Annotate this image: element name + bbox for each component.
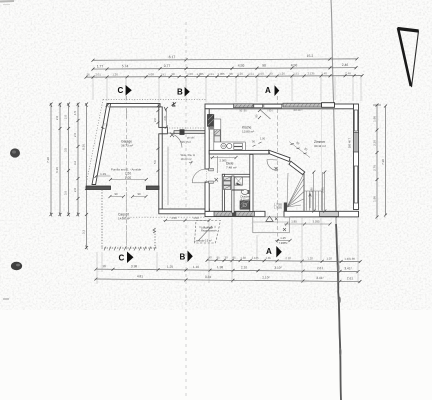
svg-text:1.55: 1.55 xyxy=(265,256,271,260)
extension lines from plan to bottom dims xyxy=(97,215,385,284)
svg-text:1.26: 1.26 xyxy=(237,72,243,76)
svg-text:15.2: 15.2 xyxy=(307,54,314,58)
svg-text:3.5: 3.5 xyxy=(64,148,68,153)
svg-text:1.00: 1.00 xyxy=(125,176,131,180)
marker A top xyxy=(265,85,279,96)
corner fold triangle top-right xyxy=(398,28,419,87)
svg-text:1.51: 1.51 xyxy=(293,71,299,75)
svg-text:90 l 90: 90 l 90 xyxy=(239,110,247,113)
bath mid partition xyxy=(232,189,244,191)
svg-text:7.30: 7.30 xyxy=(381,159,385,165)
svg-text:3.035: 3.035 xyxy=(313,220,320,224)
door frame blocks xyxy=(209,168,214,171)
house top wall xyxy=(205,104,354,109)
row1 ticks xyxy=(91,57,358,61)
garage right wall lower xyxy=(159,134,162,209)
door threshold dotted xyxy=(206,169,208,183)
chimney pier dark xyxy=(208,115,214,127)
section line B-B xyxy=(185,22,187,396)
svg-text:4.50: 4.50 xyxy=(291,63,298,67)
svg-text:2.0: 2.0 xyxy=(153,118,157,122)
tick cluster near walkway top xyxy=(172,102,177,107)
bottom wall window 1 xyxy=(214,212,232,217)
kitchen sink rects xyxy=(234,143,243,146)
svg-text:B: B xyxy=(177,87,183,96)
svg-text:1.20: 1.20 xyxy=(307,256,313,260)
row3 ticks xyxy=(85,74,364,78)
svg-text:1.00: 1.00 xyxy=(258,72,264,76)
svg-text:B: B xyxy=(180,253,186,262)
svg-text:303 90 T: 303 90 T xyxy=(293,109,303,112)
stair straight treads xyxy=(304,191,323,211)
bottom dim short row xyxy=(207,260,360,261)
dim row 2 xyxy=(93,68,356,69)
svg-text:30.11 m²: 30.11 m² xyxy=(314,144,326,148)
bottom wall mid dark pier xyxy=(232,211,236,216)
svg-text:38.73 m²: 38.73 m² xyxy=(121,144,133,148)
walkway roof dotted line xyxy=(164,127,205,129)
svg-text:l 90 l: l 90 l xyxy=(267,110,273,113)
bottom-left page mark xyxy=(3,298,9,300)
svg-text:3.41²: 3.41² xyxy=(344,266,351,270)
left chain X end clusters xyxy=(50,103,88,250)
right wall window 2 xyxy=(354,166,357,203)
garage top corner X ticks xyxy=(106,103,161,108)
zimmer interior dim lines xyxy=(313,172,315,211)
svg-text:95: 95 xyxy=(217,255,221,259)
svg-text:2.76: 2.76 xyxy=(373,165,377,171)
entrance door arc xyxy=(192,169,206,183)
svg-text:2.135: 2.135 xyxy=(252,256,259,260)
svg-text:1.5: 1.5 xyxy=(73,111,77,116)
paper grain noise xyxy=(0,0,432,310)
punch hole upper xyxy=(10,148,20,157)
carport centre dashed line xyxy=(126,192,128,247)
walkway south wall xyxy=(159,209,210,214)
walkway pillar dark xyxy=(180,129,185,135)
garage bottom-left wall bar xyxy=(86,186,111,190)
svg-text:0.77: 0.77 xyxy=(164,64,171,68)
garage door dim line xyxy=(96,176,146,180)
svg-text:13.80 m²: 13.80 m² xyxy=(242,130,254,134)
dim row 1 top xyxy=(93,59,357,60)
svg-text:90: 90 xyxy=(137,192,141,196)
carport right dotted edge xyxy=(154,228,156,249)
svg-text:8.36: 8.36 xyxy=(82,144,86,150)
door tick labels near kitchen wall end xyxy=(253,142,262,147)
svg-text:Regenwasser: Regenwasser xyxy=(201,229,217,233)
svg-text:A: A xyxy=(266,247,272,256)
kitchen-hall wall xyxy=(209,150,269,154)
svg-text:1.00: 1.00 xyxy=(260,137,266,141)
terrace outline xyxy=(253,217,289,233)
interior dim under kitchen wall xyxy=(210,157,236,159)
garage right wall upper xyxy=(159,107,162,128)
top wall white window 1 xyxy=(254,104,263,107)
svg-text:2.46: 2.46 xyxy=(342,63,349,67)
top wall hatched window 2 xyxy=(283,103,322,107)
svg-text:1.20: 1.20 xyxy=(326,257,332,261)
svg-text:98: 98 xyxy=(229,72,233,76)
tick left of entrance xyxy=(189,161,193,165)
bottom dim row lower xyxy=(96,279,360,282)
svg-text:30: 30 xyxy=(225,256,229,260)
svg-text:98: 98 xyxy=(171,72,175,76)
svg-text:2.0: 2.0 xyxy=(64,115,68,120)
fold crease blob marks xyxy=(337,264,339,272)
svg-text:7.5: 7.5 xyxy=(104,123,108,127)
top wall corner pier xyxy=(322,103,335,108)
terrace dim xyxy=(275,240,290,242)
svg-text:1.77: 1.77 xyxy=(97,64,104,68)
svg-text:1.7085: 1.7085 xyxy=(274,203,282,207)
garage left slanted wall xyxy=(92,104,111,185)
svg-text:3.41²: 3.41² xyxy=(316,276,323,280)
bottom wall window 3 terrace door xyxy=(320,212,339,217)
svg-text:8.17: 8.17 xyxy=(169,55,176,59)
top wall hatched window 1 xyxy=(234,104,254,108)
entrance x mark xyxy=(215,178,219,182)
svg-text:1.98: 1.98 xyxy=(349,257,355,261)
svg-text:7.9885²: 7.9885² xyxy=(279,241,288,245)
bottom dim row mid xyxy=(96,269,358,272)
svg-text:1.51: 1.51 xyxy=(160,72,166,76)
stair arrow xyxy=(309,194,311,208)
svg-text:7.48 m²: 7.48 m² xyxy=(226,166,237,170)
top dim labels xyxy=(97,54,349,69)
svg-text:5.74: 5.74 xyxy=(122,64,129,68)
svg-text:1.98: 1.98 xyxy=(373,196,377,202)
svg-text:4.81: 4.81 xyxy=(137,274,143,278)
house bottom wall right part xyxy=(284,211,359,217)
svg-text:3.6: 3.6 xyxy=(64,191,68,196)
section line A-A xyxy=(277,96,279,245)
svg-text:1.25: 1.25 xyxy=(167,265,173,269)
top wall white window 2 xyxy=(264,104,282,108)
svg-text:6.36: 6.36 xyxy=(55,167,59,173)
stair newel post dark xyxy=(284,203,287,212)
right wall window 1 xyxy=(354,110,357,131)
svg-text:2.46: 2.46 xyxy=(345,71,351,75)
svg-text:1.29: 1.29 xyxy=(100,172,106,176)
svg-text:1.00: 1.00 xyxy=(193,216,199,220)
svg-text:5.0: 5.0 xyxy=(153,160,157,164)
bath-zimmer wall xyxy=(250,154,253,211)
chamfer dim line xyxy=(289,142,310,158)
vanity squares xyxy=(224,177,231,181)
svg-text:7.30: 7.30 xyxy=(46,157,50,163)
svg-text:95: 95 xyxy=(233,256,237,260)
dim row 3 xyxy=(86,76,362,77)
svg-text:2.0: 2.0 xyxy=(55,116,59,121)
svg-text:1.50: 1.50 xyxy=(171,216,177,220)
bath block top wall xyxy=(222,174,252,177)
svg-text:1.40: 1.40 xyxy=(321,71,327,75)
chamfer wall 2 stair enclosure xyxy=(289,161,305,174)
svg-text:Lambda 0.5 m³: Lambda 0.5 m³ xyxy=(195,239,213,243)
svg-text:2.51: 2.51 xyxy=(321,187,325,193)
svg-text:90: 90 xyxy=(262,63,266,67)
garage slant wall tick xyxy=(101,127,104,129)
garage right wall dim marks xyxy=(157,109,160,124)
svg-text:90: 90 xyxy=(269,72,273,76)
svg-text:Wfl. 7m²: Wfl. 7m² xyxy=(181,140,191,144)
garage interior section dim xyxy=(126,108,128,118)
shower square xyxy=(235,177,243,186)
svg-text:2.10: 2.10 xyxy=(285,256,291,260)
svg-text:2.10²: 2.10² xyxy=(262,276,269,280)
marker B bottom xyxy=(180,251,193,263)
svg-text:2.01: 2.01 xyxy=(95,73,101,77)
kitchen bottom counter xyxy=(214,142,246,150)
svg-text:16: 16 xyxy=(102,264,106,268)
terrace triangle symbol xyxy=(266,216,273,221)
stair right rail xyxy=(303,173,305,211)
left dim rotated labels xyxy=(46,111,86,235)
svg-text:1.985: 1.985 xyxy=(218,72,225,76)
svg-text:1.51: 1.51 xyxy=(248,72,254,76)
svg-text:4.50: 4.50 xyxy=(238,64,245,68)
stair door arc xyxy=(267,160,278,171)
garage niche door swing arc xyxy=(167,133,182,148)
chamfer wall 1 diele-zimmer xyxy=(269,150,290,161)
svg-text:3.98: 3.98 xyxy=(131,264,137,268)
carport bottom hatched edge xyxy=(102,247,157,251)
svg-text:3.3: 3.3 xyxy=(82,230,86,235)
svg-text:1.98: 1.98 xyxy=(373,116,377,122)
garage bottom-right wall bar xyxy=(146,186,159,190)
bath block left wall xyxy=(222,174,224,211)
svg-text:2.61: 2.61 xyxy=(317,266,323,270)
svg-text:2.26: 2.26 xyxy=(373,140,377,146)
svg-text:90: 90 xyxy=(114,192,118,196)
walkway north wall band xyxy=(174,131,205,134)
svg-text:1.30: 1.30 xyxy=(240,256,246,260)
svg-text:2.01: 2.01 xyxy=(163,115,167,121)
right wall pier gray xyxy=(354,133,359,153)
svg-text:2.0: 2.0 xyxy=(73,188,77,193)
house left wall upper xyxy=(205,109,209,169)
section line C-C xyxy=(126,96,128,250)
punch hole lower xyxy=(11,262,22,270)
garage dotted roof outline xyxy=(86,100,207,186)
svg-text:19.20 m²: 19.20 m² xyxy=(181,157,192,161)
walkway dim line left xyxy=(167,147,169,206)
carport inner dim marks xyxy=(109,195,126,198)
svg-text:380 46 T: 380 46 T xyxy=(348,137,352,148)
svg-text:2.6: 2.6 xyxy=(73,133,77,138)
svg-text:1.98: 1.98 xyxy=(217,265,223,269)
svg-text:3.10²: 3.10² xyxy=(274,266,281,270)
svg-text:3.2: 3.2 xyxy=(73,161,77,166)
fold crease darker lower part xyxy=(336,224,341,400)
faint interior extension line xyxy=(320,110,322,210)
dim under walkway wall xyxy=(163,220,209,222)
stair fan treads xyxy=(287,173,304,207)
dim under stair outside xyxy=(284,223,330,225)
fold crease line vertical xyxy=(331,0,341,400)
kitchen door diagonal top right xyxy=(260,110,271,120)
kitchen sink unit squares xyxy=(214,130,220,136)
svg-text:1.985: 1.985 xyxy=(197,72,204,76)
fold crease dark mid segment xyxy=(335,150,337,218)
garage door niche xyxy=(162,127,167,133)
kitchen counter left column xyxy=(214,119,221,142)
marker A bottom xyxy=(266,246,282,258)
hall dim vertical xyxy=(217,156,219,173)
walkway X tick xyxy=(170,133,174,138)
house right wall xyxy=(354,104,359,210)
svg-text:1.80: 1.80 xyxy=(291,220,297,224)
carport left dotted edge xyxy=(101,190,103,249)
svg-text:2.085: 2.085 xyxy=(220,159,227,163)
dark shower tray xyxy=(240,201,250,209)
extension lines from plan to top dims xyxy=(93,76,361,102)
toilet xyxy=(241,190,248,195)
svg-text:C: C xyxy=(119,253,125,262)
svg-text:1.26: 1.26 xyxy=(112,72,118,76)
terrace step marks xyxy=(275,218,286,232)
svg-text:2.10: 2.10 xyxy=(241,265,247,269)
svg-text:26: 26 xyxy=(86,73,90,77)
marker C bottom xyxy=(119,252,134,264)
svg-text:1.25: 1.25 xyxy=(280,236,286,240)
svg-text:2.61: 2.61 xyxy=(347,276,353,280)
house bottom wall left part xyxy=(205,211,265,216)
svg-text:2.135: 2.135 xyxy=(308,71,315,75)
marker C top xyxy=(118,85,132,96)
scan top edge smudge xyxy=(0,0,14,3)
svg-text:A: A xyxy=(265,86,271,95)
svg-text:1.10: 1.10 xyxy=(193,265,199,269)
bottom wall window 2 xyxy=(236,212,255,217)
stair outer edge xyxy=(322,172,324,211)
row2 ticks xyxy=(92,66,358,70)
svg-text:C: C xyxy=(118,86,124,95)
stove burners xyxy=(221,143,226,148)
dim line right of garage wall xyxy=(166,109,168,128)
svg-text:1.26: 1.26 xyxy=(279,72,285,76)
svg-text:1.86: 1.86 xyxy=(310,187,314,193)
carport break squiggle xyxy=(153,229,156,234)
marker B top xyxy=(177,87,190,97)
house left wall lower xyxy=(205,182,209,211)
bath partition vertical xyxy=(232,176,234,213)
svg-text:1.00: 1.00 xyxy=(187,72,193,76)
svg-text:Pumfla and E. - Amslde: Pumfla and E. - Amslde xyxy=(111,168,142,172)
garage top wall xyxy=(107,104,160,107)
roof overhang dotted line below walkway wall xyxy=(122,216,205,218)
svg-text:3.34: 3.34 xyxy=(205,275,211,279)
svg-text:5.08: 5.08 xyxy=(148,72,154,76)
svg-text:1.51: 1.51 xyxy=(208,72,214,76)
